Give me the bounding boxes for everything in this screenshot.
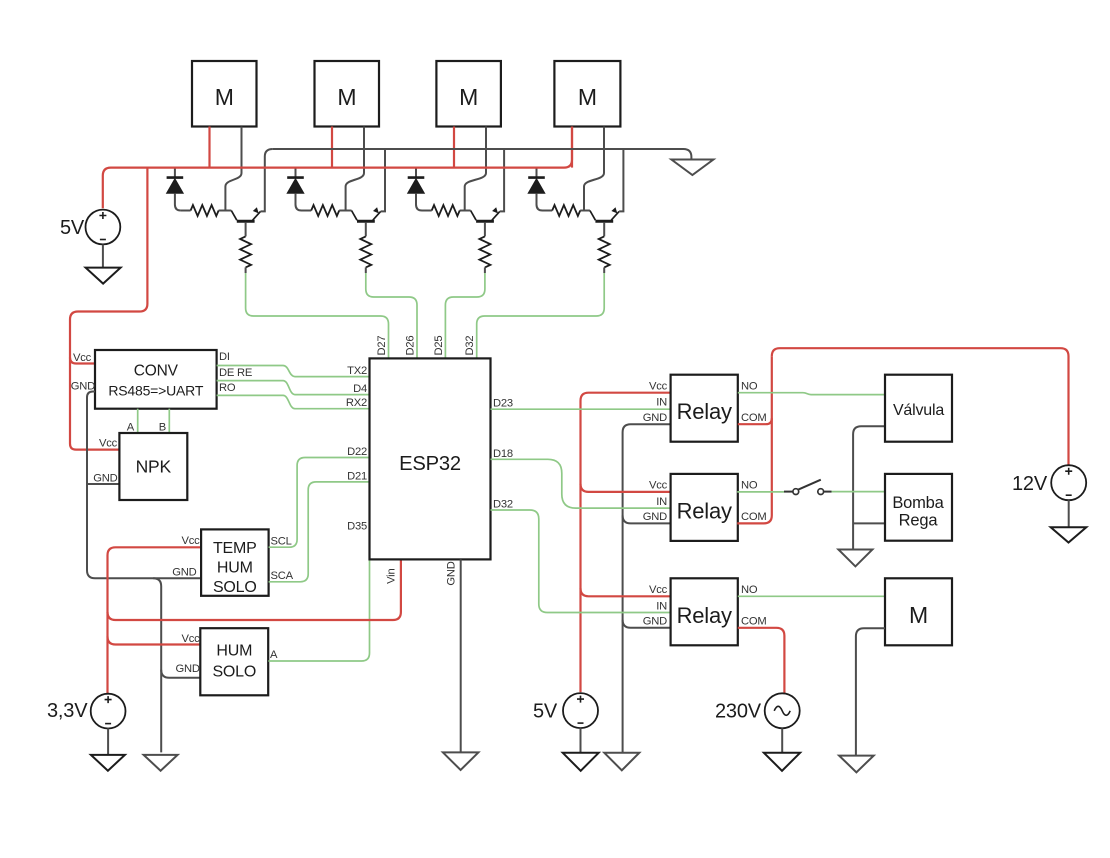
svg-text:COM: COM [741,412,767,424]
wire M1 terminal to Q1 collector [225,127,241,211]
pin label ESP32 D21 [347,470,367,482]
wire RO to RX2 (green) [217,395,370,408]
pin label K2 GND [643,511,667,523]
svg-text:Vcc: Vcc [181,633,200,645]
svg-text:12V: 12V [1012,473,1048,495]
pin label ESP32 D25 (top) [433,336,445,356]
wire DE RE to D4 (green) [217,381,370,395]
wire 3,3V to TEMP HUM SOLO Vcc [108,547,202,694]
microcontroller ESP32 [370,358,491,559]
wire 3,3V to ESP32 Vin [108,559,401,620]
resistor R2b (base) [302,205,352,216]
svg-text:D23: D23 [493,398,513,410]
diode D2 flyback [287,168,304,211]
wire 5V to ground [102,245,104,268]
svg-text:IN: IN [656,600,667,612]
relay K3 [671,578,738,645]
wire 3,3V to HUM SOLO Vcc [108,637,201,645]
wire CONV GND chain [87,392,201,579]
wire M3 terminal to Q3 collector [465,127,486,211]
pin label TEMP SCL [271,536,292,548]
wire R1e to ESP32 D27 (green) [246,273,389,358]
sensor NPK [119,433,187,500]
svg-text:SCA: SCA [271,570,294,582]
wire Q4 emitter to ground bus [619,149,623,211]
wire 3,3V to ground [107,728,109,755]
svg-text:Bomba: Bomba [892,494,944,512]
pin label ESP32 Vin [386,569,398,584]
svg-text:5V: 5V [60,217,85,239]
svg-text:Relay: Relay [677,603,732,628]
pin label K3 GND [643,616,667,628]
wire NPK GND [87,483,119,485]
resistor R1e (to ESP32) [240,236,251,273]
wire Q1 emitter to ground bus [261,149,273,211]
pin label K2 NO [741,480,758,492]
power source 230V AC [715,693,800,728]
wire relay GND feeder [623,424,671,753]
ground (M5) [839,756,874,773]
resistor R1b (base) [181,205,231,216]
svg-text:Válvula: Válvula [893,402,944,419]
power source 3,3V [47,694,126,729]
wire 5V relay source to ground [580,728,582,753]
pin label CONV B [159,422,166,434]
svg-text:GND: GND [176,663,200,675]
wire D23 to Relay1 IN (green) [491,408,671,410]
pin label K1 GND [643,412,667,424]
wire Q3 emitter to ground bus [500,149,504,211]
pin label K1 NO [741,381,758,393]
svg-text:D22: D22 [347,446,367,458]
motor M4 [554,61,620,127]
pin label CONV DI [219,351,230,363]
wire HUM A to ESP32 D35 (green) [268,533,369,661]
pin label K3 IN [656,600,667,612]
wire K3 NO to motor M5 (green) [738,595,885,597]
pin label ESP32 RX2 [346,397,367,409]
ground (12V) [1051,527,1087,542]
svg-text:D27: D27 [376,336,388,356]
ground (ESP32) [443,752,479,770]
motor M5 [885,578,952,645]
wire SCA to D21 (green) [269,482,370,582]
wire CONV B to NPK (green) [168,409,170,433]
svg-text:GND: GND [643,511,667,523]
pin label CONV GND [71,381,95,393]
svg-text:IN: IN [656,397,667,409]
transistor Q4 [590,207,619,236]
svg-text:SOLO: SOLO [213,579,257,596]
svg-text:D25: D25 [433,336,445,356]
wire M2 supply pin [331,127,333,168]
svg-text:D18: D18 [493,448,513,460]
pin label HUM GND [176,663,200,675]
resistor R3b (base) [422,205,471,216]
switch S1 [784,480,832,495]
relay K2 [671,474,738,541]
svg-text:D21: D21 [347,470,367,482]
wire M1 supply pin [208,127,210,168]
svg-text:DI: DI [219,351,230,363]
svg-text:SOLO: SOLO [212,664,256,681]
wire M5 to ground [856,628,885,755]
svg-text:RX2: RX2 [346,397,367,409]
svg-text:M: M [215,84,234,110]
svg-text:3,3V: 3,3V [47,700,88,722]
svg-text:Vcc: Vcc [649,480,668,492]
wire 5V to CONV/NPK Vcc [70,168,147,450]
resistor R3e (to ESP32) [479,236,490,273]
sensor TEMP HUM SOLO [201,529,269,596]
wire M4 terminal to Q4 collector [584,127,604,211]
diode D4 flyback [528,168,545,211]
wire R4e to ESP32 D32 (green) [477,273,605,358]
wire D32 to Relay3 IN (green) [491,510,671,613]
ground (5V source) [86,268,121,284]
transistor Q1 [231,207,260,236]
svg-text:D32: D32 [493,499,513,511]
pin label K3 COM [741,616,767,628]
resistor R4b (base) [543,205,590,216]
svg-text:Vin: Vin [386,569,398,584]
pin label K2 COM [741,511,767,523]
pin label ESP32 D23 [493,398,513,410]
svg-text:D4: D4 [353,383,367,395]
pin label CONV DE RE [219,367,252,379]
pin label CONV Vcc [73,352,92,364]
power source 5V [60,210,120,245]
svg-text:Relay: Relay [677,399,732,424]
ground (3,3V source) [91,755,125,771]
ground (relay feeder) [604,753,639,771]
svg-text:Vcc: Vcc [649,381,668,393]
svg-text:Vcc: Vcc [181,535,200,547]
wire M3 supply pin [453,127,455,168]
wire K2 NO to switch (green) [737,491,784,493]
svg-text:DE RE: DE RE [219,367,252,379]
svg-text:Relay: Relay [677,498,732,523]
wire HUM SOLO GND [161,670,200,678]
wire 230V to ground [781,728,783,753]
svg-text:NO: NO [741,584,758,596]
svg-text:NO: NO [741,480,758,492]
pin label ESP32 D22 [347,446,367,458]
svg-text:A: A [270,649,278,661]
svg-text:CONV: CONV [134,362,179,379]
transistor Q3 [471,207,500,236]
resistor R2e (to ESP32) [360,236,371,273]
pin label K3 NO [741,584,758,596]
pin label CONV A [127,422,135,434]
diode D1 flyback [167,168,184,211]
wire R2e to ESP32 D26 (green) [366,273,417,358]
relay K1 [671,375,738,442]
svg-text:M: M [909,602,928,628]
svg-text:SCL: SCL [271,536,292,548]
svg-text:B: B [159,422,166,434]
svg-text:GND: GND [643,616,667,628]
pin label ESP32 D18 [493,448,513,460]
pin label ESP32 GND [445,561,457,585]
pump Bomba Rega [885,474,952,541]
wire SCL to D22 (green) [269,458,370,548]
svg-text:GND: GND [643,412,667,424]
svg-text:HUM: HUM [217,560,253,577]
motor M3 [436,61,501,127]
transistor Q2 [352,207,381,236]
wire CONV A to NPK (green) [137,409,139,433]
pin label ESP32 TX2 [347,365,367,377]
pin label ESP32 D26 (top) [405,336,417,356]
svg-text:TX2: TX2 [347,365,367,377]
wire 12V to ground [1068,500,1070,527]
svg-text:230V: 230V [715,701,762,723]
svg-text:GND: GND [445,561,457,585]
svg-text:NO: NO [741,381,758,393]
svg-text:GND: GND [172,567,196,579]
pin label ESP32 D32 [493,499,513,511]
svg-text:COM: COM [741,511,767,523]
pin label TEMP GND [172,567,196,579]
converter U1 CONV RS485=>UART [95,350,217,409]
svg-text:Rega: Rega [899,512,939,530]
power source 5V (relays) [533,693,598,728]
svg-text:RO: RO [219,382,236,394]
pin label K2 Vcc [649,480,668,492]
ground (5V relay source) [563,753,599,771]
pin label NPK GND [93,473,117,485]
wire D18 to Relay2 IN (green) [491,459,671,508]
wire Q2 emitter to ground bus [381,149,385,211]
pin label HUM A [270,649,278,661]
motor M2 [315,61,380,127]
wire +5V bus [103,127,572,209]
pin label CONV RO [219,382,236,394]
wire COM3 to 230V [738,628,785,694]
svg-text:GND: GND [93,473,117,485]
pin label TEMP Vcc [181,535,200,547]
resistor R4e (to ESP32) [599,236,610,273]
pin label K2 IN [656,496,667,508]
wire Valvula/Bomba to ground [853,426,885,549]
wire M4 supply pin [571,127,573,168]
wire 5V to relay Vcc feeder [581,393,671,692]
wire R3e to ESP32 D25 (green) [445,273,485,358]
wire DI to TX2 (green) [217,366,370,377]
pin label K1 Vcc [649,381,668,393]
ground (230V) [764,753,800,771]
svg-text:NPK: NPK [136,457,172,477]
pin label K3 Vcc [649,584,668,596]
ground (Valvula/Bomba) [838,550,872,567]
svg-text:M: M [459,84,478,110]
wire ESP32 GND [460,559,462,752]
svg-text:A: A [127,422,135,434]
svg-text:Vcc: Vcc [99,438,118,450]
svg-text:IN: IN [656,496,667,508]
valve Valvula [885,375,952,442]
svg-text:M: M [337,84,356,110]
ground (sensor chain) [144,755,178,771]
svg-text:ESP32: ESP32 [399,453,461,475]
wire K1 NO to Valvula (green) [738,393,885,395]
pin label HUM Vcc [181,633,200,645]
svg-text:TEMP: TEMP [213,540,257,557]
svg-text:COM: COM [741,616,767,628]
svg-text:M: M [578,84,597,110]
svg-text:D35: D35 [347,521,367,533]
pin label K1 COM [741,412,767,424]
pin label ESP32 D4 [353,383,367,395]
wire relay COMs to 12V [737,348,1068,523]
svg-text:D26: D26 [405,336,417,356]
ground (motor bus) [671,160,713,176]
pin label ESP32 D35 [347,521,367,533]
pin label K1 IN [656,397,667,409]
diode D3 flyback [408,168,425,211]
sensor HUM SOLO [200,628,268,695]
pin label ESP32 D32 (top) [464,336,476,356]
pin label TEMP SCA [271,570,294,582]
svg-text:5V: 5V [533,701,558,723]
svg-text:HUM: HUM [216,643,252,660]
wire GND chain down [153,578,161,752]
wire M2 terminal to Q2 collector [346,127,364,211]
svg-text:RS485=>UART: RS485=>UART [108,382,203,398]
wire ground bus (top) [273,149,692,160]
power source 12V [1012,465,1086,500]
wire switch to Bomba Rega (green) [832,491,886,493]
pin label ESP32 D27 (top) [376,336,388,356]
svg-text:Vcc: Vcc [73,352,92,364]
motor M1 [192,61,257,127]
pin label NPK Vcc [99,438,118,450]
svg-text:D32: D32 [464,336,476,356]
svg-text:Vcc: Vcc [649,584,668,596]
